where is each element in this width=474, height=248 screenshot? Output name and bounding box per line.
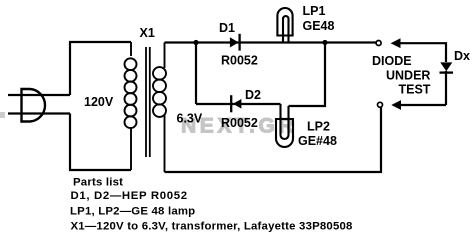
node: junction A (D2 branch tap) — [193, 40, 198, 45]
lamp LP2 — [275, 104, 294, 147]
wire: junction B down and left to LP2 — [289, 43, 326, 107]
svg-text:Dx: Dx — [454, 49, 470, 63]
label DIODE UNDER TEST — [372, 54, 431, 97]
parts list text — [70, 176, 353, 232]
wire: plug bottom prong to 120V corner — [8, 112, 70, 114]
wire: top test lead to Dx — [400, 43, 447, 62]
transformer X1 secondary winding — [153, 43, 166, 173]
svg-text:Parts list: Parts list — [73, 176, 123, 188]
wire: plug top prong to 120V corner — [8, 94, 70, 96]
AC plug P1 — [22, 89, 46, 122]
wire: primary loop upper (left vertical + top to X1) — [70, 42, 131, 95]
diode D1 — [230, 34, 240, 51]
svg-text:GE#48: GE#48 — [298, 134, 337, 148]
svg-text:D1: D1 — [219, 21, 235, 35]
svg-text:UNDER: UNDER — [386, 69, 430, 83]
arrow: test lead top — [391, 38, 401, 48]
wire: primary loop lower (left vertical + bottom to X1) — [70, 114, 131, 171]
arrow: test lead bottom — [391, 100, 401, 110]
svg-text:D1, D2—HEP R0052: D1, D2—HEP R0052 — [71, 190, 188, 202]
svg-text:LP1, LP2—GE 48 lamp: LP1, LP2—GE 48 lamp — [70, 206, 195, 218]
svg-text:GE48: GE48 — [303, 19, 335, 33]
terminal: test lead bottom — [378, 102, 383, 107]
transformer X1 primary winding — [125, 42, 137, 170]
diode Dx (under test) — [440, 62, 454, 105]
svg-text:R0052: R0052 — [221, 54, 258, 68]
svg-text:6.3V: 6.3V — [177, 112, 203, 126]
svg-text:LP2: LP2 — [307, 119, 330, 133]
svg-text:LP1: LP1 — [303, 4, 326, 18]
node: junction B (LP2 branch tap) — [322, 40, 327, 45]
svg-text:X1: X1 — [140, 26, 155, 40]
svg-text:D2: D2 — [245, 88, 261, 102]
wire: top rail (secondary top to test terminal) — [165, 41, 377, 43]
wire: D2 branch horizontal to LP2 — [196, 103, 281, 105]
transformer X1 core — [146, 47, 150, 157]
svg-text:TEST: TEST — [399, 83, 431, 97]
lamp LP1 — [276, 8, 293, 43]
svg-text:DIODE: DIODE — [372, 54, 412, 68]
wire: return rail (bottom terminal down and left to secondary) — [165, 107, 382, 172]
svg-text:X1—120V to 6.3V, transformer,: X1—120V to 6.3V, transformer, Lafayette … — [71, 221, 353, 233]
svg-text:R0052: R0052 — [221, 116, 258, 130]
wire: bottom test lead from Dx — [401, 104, 447, 106]
watermark — [0, 112, 297, 137]
svg-text:120V: 120V — [84, 95, 114, 109]
terminal: test lead top — [376, 41, 381, 46]
wire: D2 branch vertical — [195, 43, 197, 105]
diode D2 — [231, 95, 241, 112]
